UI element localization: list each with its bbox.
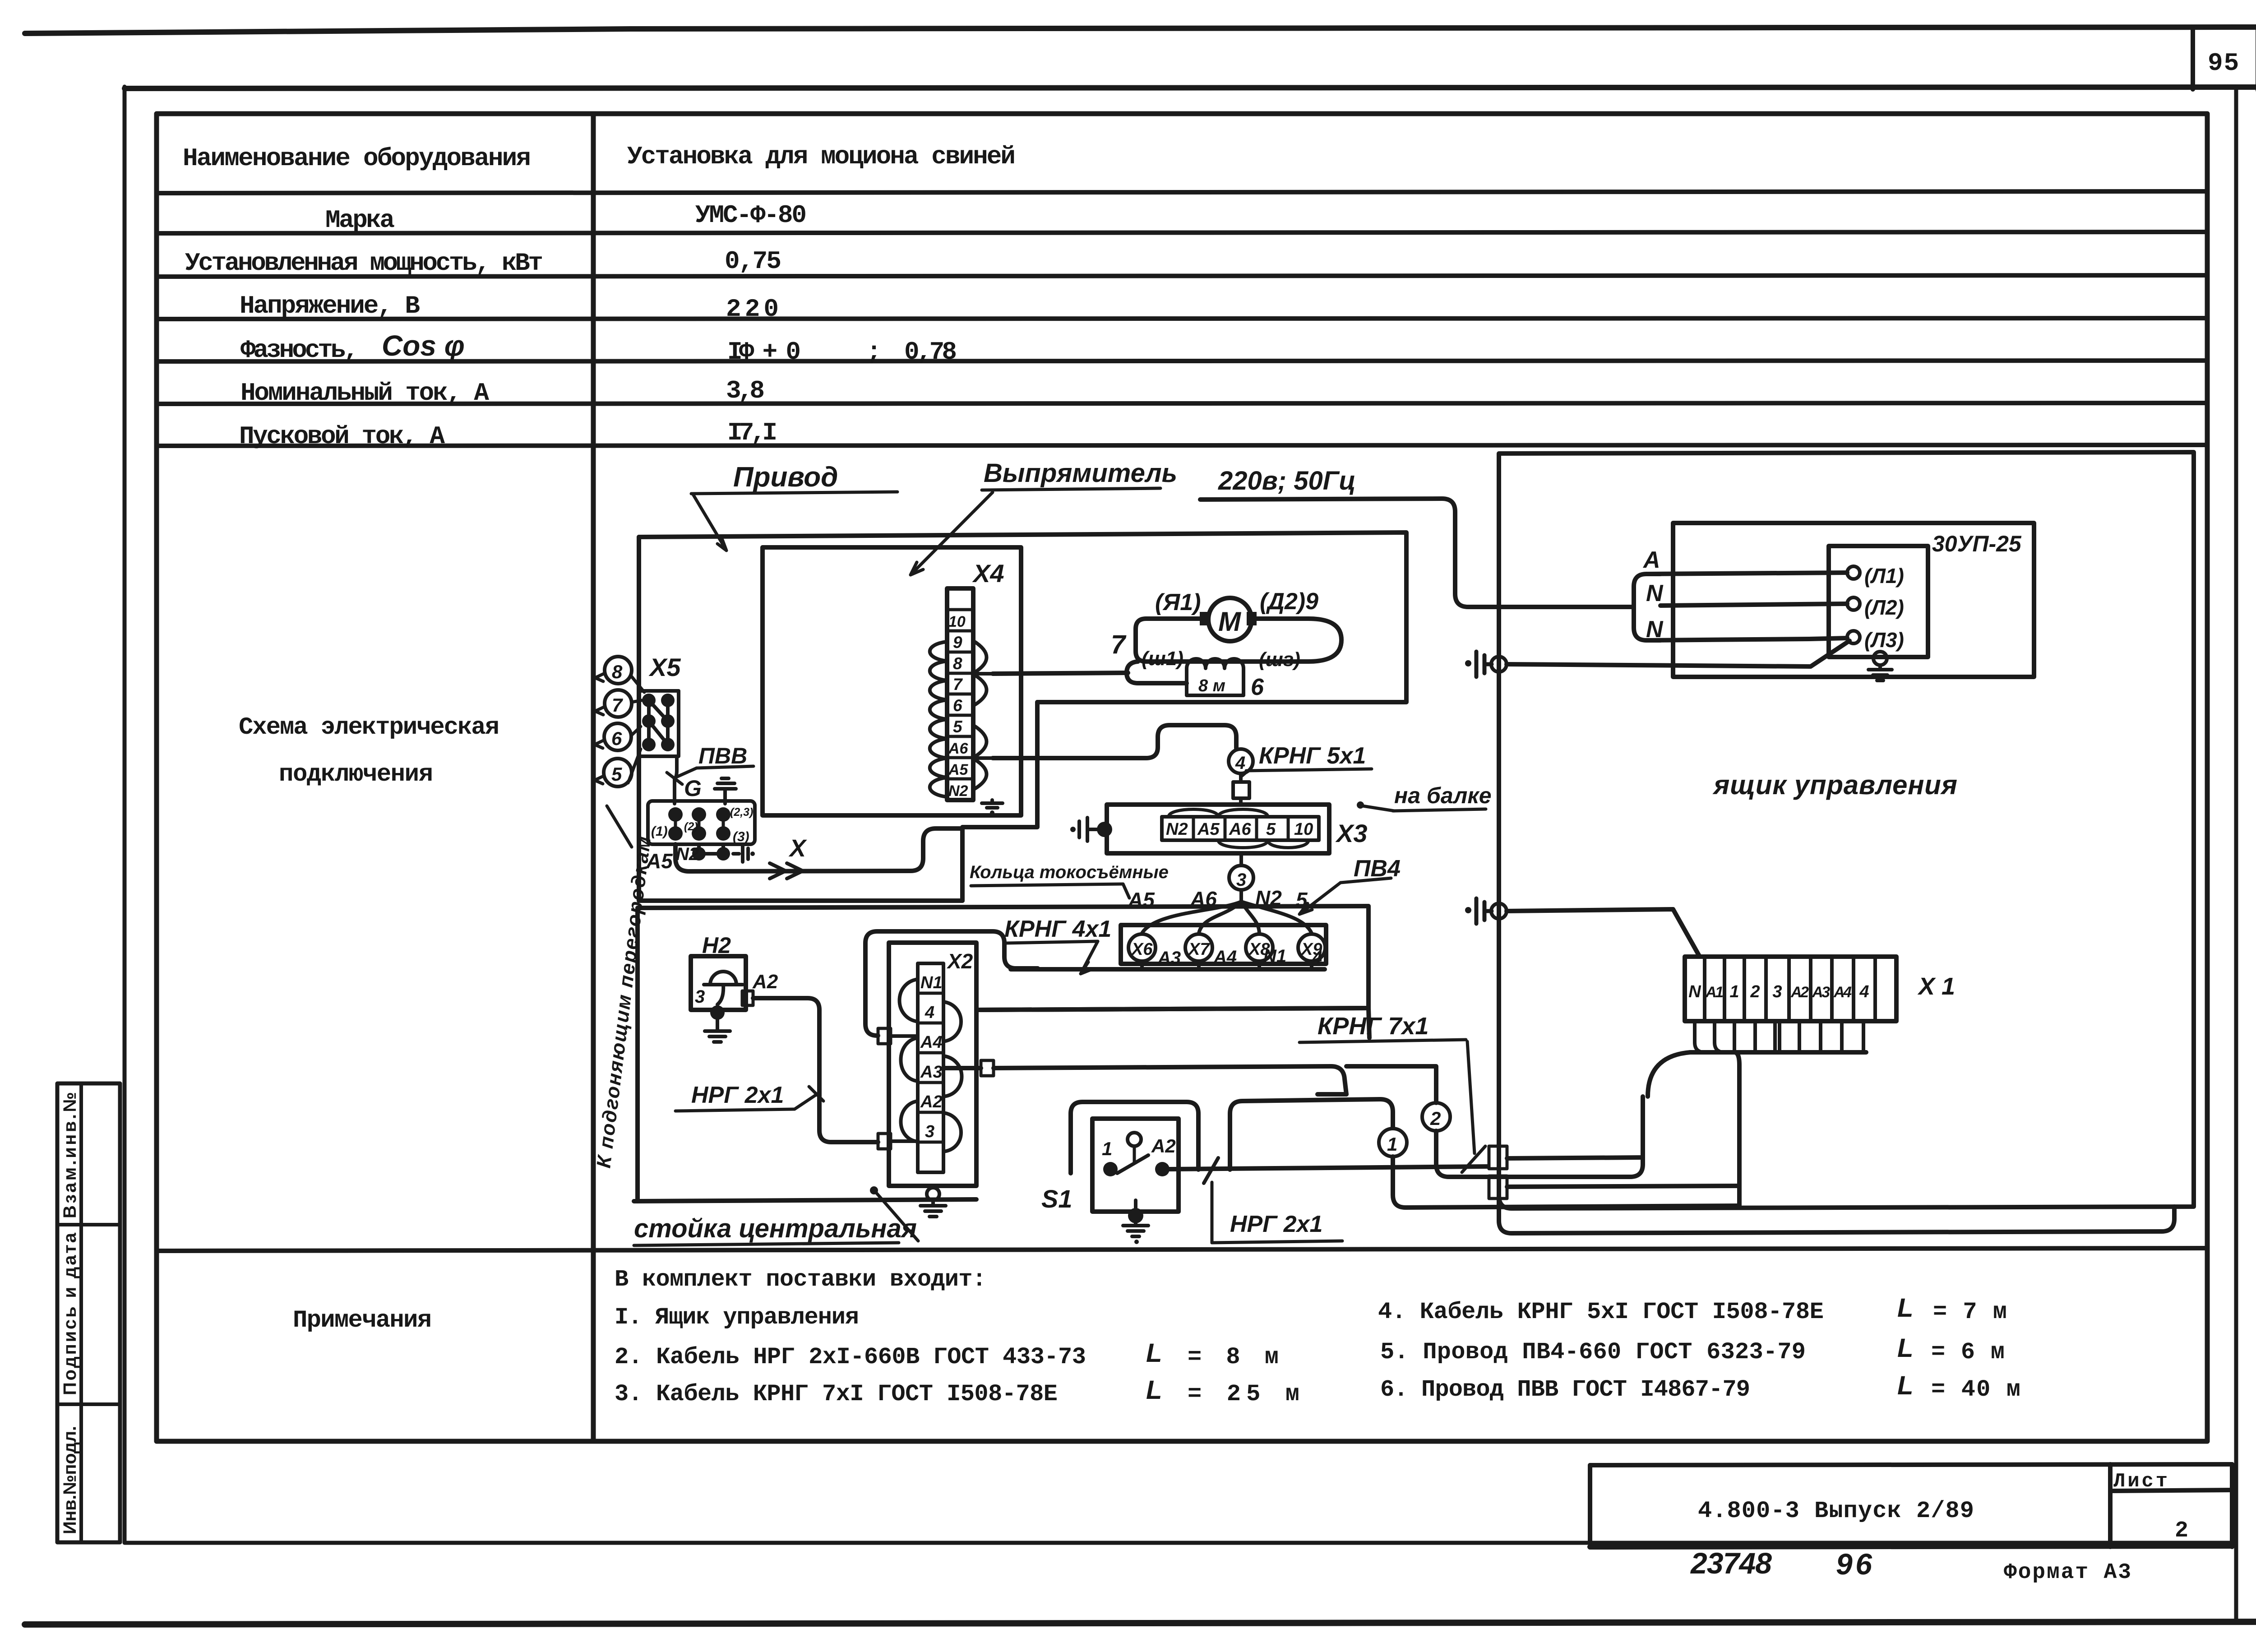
data table outer border [157,114,2207,1441]
svg-text:А2: А2 [1790,984,1809,1001]
svg-text:220в; 50Гц: 220в; 50Гц [1218,466,1356,495]
supply cable bracket [1634,574,1660,640]
slip rings box [1121,925,1326,964]
wire X4 pin8 to motor [993,673,1128,674]
wire X5 block down to PVV junction [675,756,677,804]
wire from stoyka riser top to circle 2 riser [1346,1008,1436,1083]
X5 circled pin 6 [595,723,641,750]
svg-text:А3: А3 [1812,984,1830,1001]
svg-text:1: 1 [1387,1134,1397,1155]
svg-text:4: 4 [1235,753,1245,773]
svg-text:ящик управления: ящик управления [1712,770,1957,800]
slip ring X6 [1128,934,1156,961]
page number box 95 [2193,28,2256,90]
X2 right cable loops [943,1002,962,1152]
svg-text:(2,3): (2,3) [730,806,753,819]
svg-text:А4: А4 [1213,947,1237,967]
svg-text:L: L [1897,1333,1913,1363]
slip ring X7 [1185,934,1212,961]
svg-text:Пусковой ток, А: Пусковой ток, А [239,422,445,451]
table row line 6 [157,403,2207,404]
connector X4 strip [947,588,973,800]
chassis ground node 1 [1465,652,1507,677]
wire inside from upper terminal [1507,1157,1643,1158]
svg-text:N2: N2 [676,844,699,864]
svg-text:КРНГ 7х1: КРНГ 7х1 [1318,1013,1428,1040]
wire X2 to control box (krng7 line A) [943,1066,1346,1094]
svg-text:Х3: Х3 [1335,819,1368,847]
wire X2 right edge to vertical riser [976,1008,1368,1010]
S1 actuator circle on stem [1128,1133,1141,1146]
svg-text:подключения: подключения [279,761,433,788]
svg-text:Х6: Х6 [1131,940,1153,959]
ground return wire along bottom [1499,1196,2174,1233]
svg-text:(3): (3) [733,829,749,844]
left margin stamp boxes [57,1083,120,1542]
svg-text:(Я1): (Я1) [1155,589,1201,615]
X5 circled pin 8 [595,657,644,692]
svg-text:2: 2 [2175,1518,2188,1544]
svg-text:8: 8 [953,654,962,673]
svg-text:(шг): (шг) [1259,648,1300,671]
svg-text:КРНГ 5х1: КРНГ 5х1 [1259,743,1366,769]
svg-text:А6: А6 [1229,820,1251,839]
title block [1590,1464,2232,1585]
slip ring X8 [1246,934,1273,961]
X3 connector box [1107,805,1329,853]
svg-text:2. Кабель НРГ 2хI-660В ГОСТ 43: 2. Кабель НРГ 2хI-660В ГОСТ 433-73 [615,1344,1086,1370]
connector X1 strip [1685,957,1896,1021]
second header line [125,87,2256,88]
svg-text:(2): (2) [684,820,698,833]
svg-text:(Л2): (Л2) [1864,596,1904,619]
svg-text:0,78: 0,78 [904,338,957,366]
svg-text:5: 5 [953,717,963,736]
wire path through circle 1 [1230,1099,1393,1170]
circled wire number 3 [1239,853,1243,865]
wire 220V supply [1200,499,1632,607]
wire X4 pinA6 to circle 4 [993,725,1236,758]
series winding inductor 8 M 6 [1187,659,1244,695]
leader line from pin 5 area down along rotated label [607,806,632,847]
svg-text:N1: N1 [920,973,943,992]
ZOUP terminal L2 [1847,597,1860,610]
leader from Vypryamitel label [911,492,993,575]
svg-text:Взам.инв.№: Взам.инв.№ [60,1092,80,1218]
lamp H2 box [691,956,746,1010]
svg-text:;: ; [866,338,882,366]
svg-text:9: 9 [953,633,962,652]
svg-text:G: G [684,776,702,801]
svg-text:= 8 м: = 8 м [1188,1344,1279,1370]
svg-text:10: 10 [948,613,966,630]
lamp H2 symbol [704,972,743,1004]
switch S1 cable hat [1071,1102,1198,1173]
svg-text:5. Провод ПВ4-660 ГОСТ 6323-7: 5. Провод ПВ4-660 ГОСТ 6323-79 [1380,1339,1806,1365]
X4 pins 9-6 outlet blobs [973,641,995,706]
table row line 7 (schematic cell top) [157,445,2207,446]
ground under X4 N2 [982,800,1003,808]
svg-text:23748: 23748 [1690,1546,1772,1580]
svg-text:L: L [1146,1338,1162,1368]
svg-text:8: 8 [612,661,623,682]
S1 ground [1128,1208,1143,1223]
svg-text:А5: А5 [948,761,969,778]
svg-text:А6: А6 [948,740,969,757]
leader from Privod label [693,494,726,551]
svg-text:Фазность,: Фазность, [240,336,359,365]
svg-text:3: 3 [695,987,705,1007]
svg-text:3. Кабель КРНГ 7хI ГОСТ I508-7: 3. Кабель КРНГ 7хI ГОСТ I508-78Е [615,1381,1058,1407]
inner drawing frame [123,87,127,1542]
svg-text:Примечания: Примечания [293,1307,432,1334]
svg-text:3: 3 [1772,982,1782,1001]
svg-text:4. Кабель КРНГ 5хI ГОСТ I508-7: 4. Кабель КРНГ 5хI ГОСТ I508-78Е [1378,1299,1824,1325]
ZOUP terminal L1 [1847,566,1860,579]
svg-text:4: 4 [1859,982,1869,1001]
X2 outer box [889,943,976,1186]
X2 right terminal square [981,1060,994,1076]
privod enclosure top and right [639,532,1406,702]
svg-text:4: 4 [925,1003,934,1022]
svg-text:НРГ 2х1: НРГ 2х1 [1230,1211,1322,1237]
svg-text:Схема электрическая: Схема электрическая [239,714,499,741]
X2 lower terminal square [878,1134,891,1149]
svg-text:1: 1 [1102,1138,1112,1159]
X4 cable bundle loops left [930,642,947,797]
svg-text:7: 7 [1111,630,1127,659]
switch S1 box [1092,1119,1179,1212]
svg-text:стойка центральная: стойка центральная [634,1214,917,1243]
svg-text:6: 6 [611,728,622,749]
svg-text:N: N [1646,580,1664,606]
svg-text:8 м: 8 м [1198,676,1225,695]
table row line 2 [157,232,2207,233]
svg-text:6: 6 [953,696,962,715]
circled wire number 2 [1318,1092,1346,1097]
svg-text:Установка для моциона свиней: Установка для моциона свиней [627,142,1016,171]
svg-text:5: 5 [1266,820,1276,839]
slip ring drop wires to cable bus [1142,961,1312,969]
motor outer loop to inductor [1127,662,1187,683]
svg-text:N: N [1688,982,1701,1001]
wire X with arrows [675,828,962,871]
ZOUP-25 outer box [1673,523,2034,677]
NRG2x1 cable tick on S1 wire [1204,1158,1218,1183]
svg-text:95: 95 [2208,49,2240,78]
svg-text:Привод: Привод [733,462,838,493]
fan wires from circle 3 to slip rings [1142,902,1312,933]
motor field winding capsule [1136,619,1341,662]
table row line 1 [157,191,2207,193]
svg-text:А1: А1 [1705,984,1724,1001]
connector X2 cable hat [865,931,1038,1036]
svg-text:(1): (1) [651,824,668,839]
lamp ground [710,1005,725,1020]
wire jog from motor bottom to privod bottom corner [962,702,1037,901]
motor terminal squares [1200,612,1210,625]
stoyka tsentralnaya enclosure [638,906,1368,1201]
rectifier box [763,547,1021,815]
svg-text:Х5: Х5 [648,653,681,681]
X5 circled pin 5 [595,749,641,787]
S1 contact dots and blade [1103,1162,1118,1176]
circled wire number 4 [1229,749,1253,773]
svg-text:(Д2)9: (Д2)9 [1260,588,1318,615]
svg-text:Подпись и дата: Подпись и дата [60,1232,80,1395]
table row line 5 [157,361,2207,361]
bundle curve to riser 1 [1734,1052,1739,1206]
svg-text:Х 1: Х 1 [1917,973,1955,1000]
svg-text:А: А [1642,547,1660,573]
X1 drop wires [1695,1021,1863,1052]
control cabinet enclosure [1499,452,2194,1208]
svg-text:А4: А4 [1833,984,1852,1001]
svg-text:Установленная мощность, кВт: Установленная мощность, кВт [185,249,543,278]
svg-text:Х7: Х7 [1188,940,1210,959]
svg-text:А5: А5 [1197,820,1220,839]
table row line 4 [157,318,2207,319]
svg-text:Кольца токосъёмные: Кольца токосъёмные [970,862,1169,882]
svg-text:Формат А3: Формат А3 [2004,1560,2131,1585]
chassis ground left of X3 [1070,818,1112,841]
table column divider [591,114,596,1441]
svg-text:S1: S1 [1041,1185,1073,1213]
notes text [615,1266,2020,1407]
wire node1 to ZOUP L3 [1507,641,1849,666]
privod enclosure left and bottom [639,537,962,901]
svg-text:L: L [1146,1375,1162,1405]
svg-text:L: L [1897,1293,1913,1323]
X2 strip cells [918,963,943,1172]
circled wire number 1 [1379,1129,1407,1157]
svg-text:Напряжение, В: Напряжение, В [240,292,420,320]
svg-text:А3: А3 [920,1063,943,1082]
svg-text:Cos φ: Cos φ [382,329,465,362]
svg-text:Инв.№подл.: Инв.№подл. [60,1426,80,1534]
wire inside from lower terminal [1507,1186,1739,1187]
X2 left cable loops [891,979,918,1142]
svg-text:(ш1): (ш1) [1142,648,1183,670]
svg-text:6: 6 [1251,674,1264,700]
svg-text:КРНГ 4х1: КРНГ 4х1 [1004,916,1111,942]
svg-text:(Л3): (Л3) [1864,628,1904,652]
svg-text:5: 5 [611,764,622,785]
bundle left curve to riser 2 [1648,1052,1690,1097]
svg-text:4.800-3 Выпуск 2/89: 4.800-3 Выпуск 2/89 [1698,1498,1974,1524]
svg-text:М: М [1218,606,1242,637]
page bottom thick line [25,1622,2256,1624]
svg-text:Выпрямитель: Выпрямитель [984,458,1177,488]
wire node2 to X1 [1507,909,1700,957]
svg-text:В комплект поставки входит:: В комплект поставки входит: [615,1266,986,1293]
wire S1 A2 to control box terminal [1170,1166,1488,1169]
svg-text:IФ + 0: IФ + 0 [727,338,801,366]
X1 cable bundle [1690,1050,1866,1055]
X3 strip cells [1162,810,1319,848]
svg-text:L: L [1897,1371,1913,1400]
ground symbol in PVV area (bars above stem) [715,778,736,804]
lamp output terminal square [742,991,753,1005]
ZOUP inner box [1829,546,1928,657]
svg-text:N1: N1 [1263,946,1286,966]
svg-text:Х2: Х2 [946,949,973,973]
cable bus KRNG4x1 under slip rings [1011,967,1325,972]
svg-text:НРГ 2х1: НРГ 2х1 [691,1082,784,1108]
svg-text:УМС-Ф-80: УМС-Ф-80 [695,201,807,230]
svg-text:220: 220 [726,295,779,324]
control box entry terminal upper [1489,1146,1507,1169]
svg-text:X: X [788,835,807,862]
svg-text:3,8: 3,8 [726,376,765,405]
wire H2 to X2 [753,998,878,1142]
svg-text:на балке: на балке [1394,783,1492,808]
terminal dots below PVV box [692,844,755,862]
svg-text:А2: А2 [1151,1135,1176,1157]
svg-text:0,75: 0,75 [725,247,781,276]
svg-text:А2: А2 [752,971,778,993]
X5 circled pin 7 [595,690,642,717]
slip ring X9 [1298,934,1325,961]
svg-text:Марка: Марка [325,206,395,235]
X5 terminal block [639,691,679,756]
svg-text:2: 2 [1750,982,1760,1001]
control box entry terminal lower [1489,1176,1507,1199]
leader PVV with arrow tick [667,768,697,784]
svg-text:ПВВ: ПВВ [698,743,747,768]
svg-text:= 6 м: = 6 м [1931,1339,2005,1365]
svg-text:3: 3 [925,1122,934,1141]
svg-text:А3: А3 [1157,948,1181,968]
X2 upper terminal square [878,1028,891,1044]
page top border line [25,27,2256,33]
svg-text:30УП-25: 30УП-25 [1932,531,2022,556]
ZOUP terminal L3 [1847,631,1860,643]
svg-text:= 7 м: = 7 м [1933,1299,2007,1325]
X3 connector pin stub [1233,773,1249,805]
svg-text:7: 7 [953,675,963,694]
svg-text:N2: N2 [948,782,968,800]
svg-text:(Л1): (Л1) [1864,564,1904,588]
table row line 8 (notes cell top) [157,1248,2207,1251]
motor M circle [1208,598,1252,641]
svg-text:7: 7 [612,694,623,716]
svg-text:10: 10 [1294,820,1313,839]
svg-text:6. Провод ПВВ ГОСТ I4867-79: 6. Провод ПВВ ГОСТ I4867-79 [1380,1376,1750,1403]
svg-text:Номинальный ток, А: Номинальный ток, А [240,379,489,407]
X4 pins 5-N2 outlet blobs [973,725,995,790]
chassis ground node 2 [1465,898,1507,924]
svg-text:3: 3 [1236,870,1246,890]
svg-text:А4: А4 [920,1033,943,1052]
PVV terminal box [648,801,755,844]
svg-text:1: 1 [1729,982,1739,1001]
X2 ground [920,1188,946,1217]
svg-text:I7,I: I7,I [727,418,777,447]
svg-text:2: 2 [1430,1108,1441,1129]
ZOUP ground [1868,652,1892,680]
svg-text:Х4: Х4 [972,559,1004,588]
table row line 3 [157,275,2207,277]
svg-text:I. Ящик управления: I. Ящик управления [615,1304,859,1331]
svg-text:Наименование оборудования: Наименование оборудования [183,144,531,173]
svg-text:N2: N2 [1166,820,1188,839]
svg-text:А2: А2 [920,1092,943,1111]
